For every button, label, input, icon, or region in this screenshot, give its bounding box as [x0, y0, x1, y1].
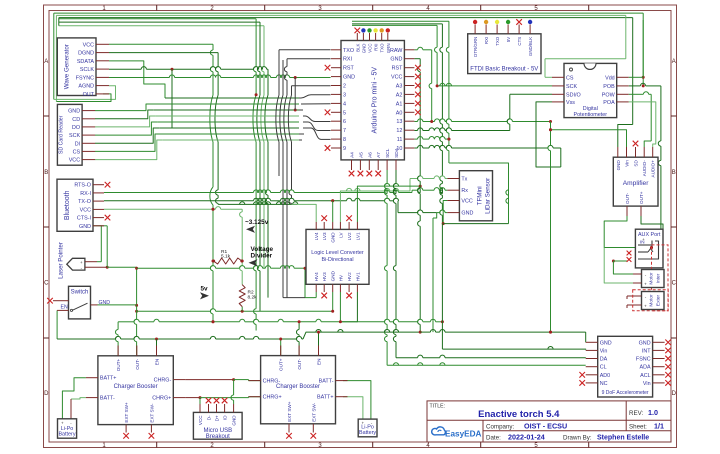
- svg-text:2022-01-24: 2022-01-24: [508, 432, 545, 441]
- svg-text:Exter: Exter: [656, 295, 662, 307]
- svg-text:1/1: 1/1: [654, 422, 664, 431]
- svg-text:D: D: [44, 391, 49, 397]
- svg-text:RTS-O: RTS-O: [74, 183, 91, 189]
- svg-text:Charger Booster: Charger Booster: [114, 384, 158, 390]
- svg-text:Charger Booster: Charger Booster: [276, 384, 320, 390]
- svg-text:~3.125v: ~3.125v: [245, 219, 269, 226]
- svg-text:OUT+: OUT+: [639, 191, 644, 204]
- svg-text:GND: GND: [390, 57, 402, 63]
- svg-text:RXI: RXI: [484, 37, 489, 44]
- svg-text:GND: GND: [331, 232, 336, 243]
- svg-text:TXO: TXO: [495, 36, 500, 46]
- svg-text:SCL: SCL: [385, 148, 391, 158]
- svg-text:FTDI Basic Breakout - 5V: FTDI Basic Breakout - 5V: [470, 67, 538, 73]
- svg-text:BATT+: BATT+: [100, 376, 117, 382]
- svg-text:VCC: VCC: [461, 199, 472, 205]
- svg-text:RXI: RXI: [374, 44, 379, 51]
- svg-text:HV3: HV3: [322, 272, 327, 281]
- svg-text:DO: DO: [72, 125, 80, 131]
- svg-text:GND: GND: [232, 415, 237, 426]
- svg-text:Laser Pointer: Laser Pointer: [57, 242, 64, 279]
- svg-text:DI: DI: [75, 141, 80, 147]
- svg-text:EN: EN: [317, 359, 322, 365]
- svg-text:Breakout: Breakout: [206, 434, 230, 440]
- svg-text:Wave Generator: Wave Generator: [63, 44, 70, 89]
- svg-text:A2: A2: [396, 92, 403, 98]
- svg-text:12: 12: [396, 128, 402, 134]
- svg-text:Enactive torch 5.4: Enactive torch 5.4: [478, 409, 560, 420]
- svg-text:CD: CD: [72, 117, 80, 123]
- svg-text:TX-O: TX-O: [78, 199, 91, 205]
- svg-text:Micro USB: Micro USB: [203, 428, 232, 434]
- svg-text:Switch: Switch: [71, 290, 89, 296]
- svg-text:Drawn By:: Drawn By:: [563, 434, 592, 441]
- svg-text:VCC: VCC: [80, 207, 91, 213]
- svg-text:DA: DA: [600, 357, 608, 363]
- svg-text:TXO: TXO: [343, 48, 354, 54]
- svg-text:Motor: Motor: [649, 272, 655, 285]
- svg-text:8.2k: 8.2k: [248, 294, 258, 300]
- svg-text:RX-I: RX-I: [80, 191, 91, 197]
- svg-text:HV1: HV1: [355, 272, 360, 281]
- svg-text:EXT SW+: EXT SW+: [287, 401, 292, 422]
- svg-text:OUT-: OUT-: [297, 358, 302, 369]
- svg-text:HV: HV: [338, 274, 343, 281]
- svg-text:Vin: Vin: [600, 348, 608, 354]
- svg-text:OUT+: OUT+: [279, 358, 284, 371]
- svg-text:NC: NC: [600, 381, 608, 387]
- svg-text:AD0: AD0: [600, 373, 611, 379]
- svg-text:DTR/GRN: DTR/GRN: [473, 37, 478, 57]
- svg-text:FSYNC: FSYNC: [76, 75, 94, 81]
- svg-text:EN: EN: [155, 359, 160, 365]
- svg-text:GND: GND: [79, 224, 91, 230]
- svg-text:Company:: Company:: [486, 424, 514, 431]
- svg-text:B: B: [44, 170, 48, 176]
- svg-text:D-: D-: [207, 415, 212, 420]
- svg-text:OIST - ECSU: OIST - ECSU: [524, 422, 567, 431]
- svg-text:A0: A0: [396, 110, 403, 116]
- svg-text:BLK: BLK: [355, 43, 360, 51]
- svg-text:DGND: DGND: [78, 51, 94, 57]
- svg-text:5v: 5v: [201, 286, 209, 293]
- svg-text:OUT-: OUT-: [135, 358, 140, 369]
- svg-text:Motor: Motor: [649, 294, 655, 307]
- svg-text:11: 11: [397, 137, 403, 143]
- svg-text:SDA: SDA: [394, 147, 400, 158]
- svg-text:D+: D+: [215, 415, 220, 421]
- svg-text:GRN: GRN: [386, 44, 391, 54]
- svg-text:RXI: RXI: [343, 57, 352, 63]
- svg-text:EXT SW-: EXT SW-: [149, 403, 154, 422]
- svg-text:AUDIO+: AUDIO+: [651, 160, 656, 178]
- svg-text:POB: POB: [603, 84, 615, 90]
- svg-text:GND: GND: [361, 44, 366, 54]
- svg-text:+: +: [644, 282, 647, 287]
- svg-text:GND: GND: [600, 340, 612, 346]
- svg-text:EXT SW+: EXT SW+: [124, 402, 129, 423]
- svg-text:CL: CL: [600, 365, 607, 371]
- svg-text:Potentiometer: Potentiometer: [574, 112, 608, 118]
- svg-text:Divider: Divider: [251, 253, 273, 260]
- svg-text:HV2: HV2: [347, 272, 352, 281]
- svg-text:CS: CS: [73, 149, 81, 155]
- svg-text:FSNC: FSNC: [636, 357, 651, 363]
- svg-text:A5: A5: [358, 152, 364, 158]
- svg-text:LiDar Sensor: LiDar Sensor: [484, 178, 491, 214]
- svg-text:RST: RST: [343, 66, 354, 72]
- svg-text:7: 7: [343, 128, 346, 134]
- svg-text:VCC: VCC: [198, 415, 203, 425]
- svg-text:5V: 5V: [506, 37, 511, 42]
- svg-text:1.0: 1.0: [648, 408, 658, 417]
- svg-text:LV1: LV1: [355, 232, 360, 240]
- svg-text:ADA: ADA: [640, 365, 651, 371]
- svg-text:Bi-Directional: Bi-Directional: [321, 257, 353, 263]
- svg-text:Logic Level Converter: Logic Level Converter: [311, 250, 364, 256]
- svg-text:SD: SD: [634, 160, 639, 167]
- svg-text:D: D: [672, 391, 677, 397]
- svg-text:EN: EN: [61, 305, 68, 311]
- svg-text:Inter: Inter: [656, 273, 662, 283]
- svg-text:13: 13: [396, 119, 402, 125]
- svg-text:ACL: ACL: [640, 373, 651, 379]
- svg-text:A6: A6: [367, 152, 373, 158]
- svg-text:RST: RST: [392, 66, 403, 72]
- svg-text:LV3: LV3: [322, 232, 327, 240]
- svg-text:A3: A3: [396, 84, 403, 90]
- svg-text:A: A: [672, 59, 676, 65]
- svg-text:EXT SW-: EXT SW-: [311, 402, 316, 421]
- svg-text:6: 6: [343, 119, 346, 125]
- svg-text:OUT: OUT: [83, 92, 95, 98]
- svg-text:OUT+: OUT+: [116, 358, 121, 371]
- svg-text:2: 2: [343, 84, 346, 90]
- svg-text:CHRG-: CHRG-: [154, 378, 172, 384]
- svg-text:AGND: AGND: [78, 84, 94, 90]
- svg-text:GND: GND: [343, 75, 355, 81]
- svg-text:CS: CS: [566, 75, 574, 81]
- svg-text:SDI/O: SDI/O: [566, 92, 581, 98]
- svg-text:EasyEDA: EasyEDA: [445, 429, 481, 438]
- svg-text:C: C: [672, 281, 677, 287]
- svg-text:POA: POA: [603, 100, 615, 106]
- svg-text:BATT-: BATT-: [100, 396, 115, 402]
- svg-text:REV:: REV:: [629, 410, 643, 417]
- svg-text:AUDIO-: AUDIO-: [642, 160, 647, 177]
- svg-text:CHRG+: CHRG+: [263, 395, 282, 401]
- svg-text:Stephen Estelle: Stephen Estelle: [597, 434, 649, 441]
- svg-text:Amplifier: Amplifier: [623, 180, 649, 187]
- svg-text:CTS: CTS: [517, 37, 522, 46]
- svg-text:Vss: Vss: [566, 100, 575, 106]
- svg-text:A7: A7: [376, 152, 382, 158]
- svg-text:9: 9: [343, 146, 346, 152]
- svg-text:Sheet:: Sheet:: [629, 424, 647, 431]
- svg-text:INT: INT: [642, 348, 651, 354]
- svg-text:B: B: [672, 170, 676, 176]
- svg-text:Battery: Battery: [359, 430, 376, 436]
- svg-text:LV2: LV2: [347, 232, 352, 240]
- svg-text:Vin: Vin: [625, 160, 630, 167]
- svg-text:VCC: VCC: [368, 44, 373, 53]
- svg-text:GND: GND: [639, 340, 651, 346]
- svg-text:GND: GND: [616, 160, 621, 171]
- svg-text:TFMini: TFMini: [477, 186, 484, 205]
- svg-text:TITLE:: TITLE:: [430, 403, 446, 409]
- svg-text:C: C: [44, 281, 49, 287]
- svg-text:LV: LV: [338, 231, 343, 237]
- svg-text:SDATA: SDATA: [77, 59, 95, 65]
- svg-text:SCK: SCK: [566, 84, 577, 90]
- svg-text:9 DoF Accelerometer: 9 DoF Accelerometer: [602, 390, 649, 396]
- svg-text:POW: POW: [602, 92, 616, 98]
- svg-text:Date:: Date:: [486, 434, 501, 441]
- svg-text:ID: ID: [223, 415, 228, 420]
- svg-text:Tx: Tx: [461, 177, 467, 183]
- svg-text:GND: GND: [99, 300, 111, 306]
- svg-text:3: 3: [343, 92, 346, 98]
- svg-text:TXO: TXO: [380, 43, 385, 53]
- svg-text:RAW: RAW: [390, 48, 403, 54]
- svg-text:Vdd: Vdd: [605, 75, 615, 81]
- svg-text:CHRG+: CHRG+: [152, 396, 171, 402]
- svg-text:GND: GND: [331, 270, 336, 281]
- svg-text:Bluetooth: Bluetooth: [64, 190, 71, 220]
- svg-text:Rx: Rx: [461, 188, 468, 194]
- svg-text:A1: A1: [396, 101, 403, 107]
- svg-text:VCC: VCC: [391, 75, 402, 81]
- svg-text:4: 4: [343, 101, 346, 107]
- svg-text:A: A: [44, 59, 48, 65]
- svg-text:+: +: [644, 304, 647, 309]
- svg-text:VCC: VCC: [69, 158, 80, 164]
- svg-text:CTS-I: CTS-I: [77, 216, 91, 222]
- svg-text:5: 5: [343, 110, 346, 116]
- svg-text:GND/BLK: GND/BLK: [528, 37, 533, 56]
- svg-text:SCLK: SCLK: [80, 67, 94, 73]
- svg-text:OUT-: OUT-: [625, 193, 630, 204]
- svg-text:GND: GND: [461, 211, 473, 217]
- svg-text:CHRG-: CHRG-: [263, 379, 281, 385]
- svg-text:Battery: Battery: [58, 432, 75, 438]
- svg-text:VCC: VCC: [83, 42, 94, 48]
- svg-text:Vin: Vin: [643, 381, 651, 387]
- svg-text:A4: A4: [350, 152, 356, 158]
- svg-text:SCK: SCK: [69, 133, 80, 139]
- svg-text:GND: GND: [68, 109, 80, 115]
- svg-text:BATT+: BATT+: [317, 395, 334, 401]
- svg-text:Arduino Pro mini - 5V: Arduino Pro mini - 5V: [372, 67, 379, 134]
- svg-text:LV4: LV4: [314, 232, 319, 240]
- svg-text:HV4: HV4: [314, 272, 319, 281]
- svg-text:SD Card Reader: SD Card Reader: [58, 115, 64, 154]
- svg-text:8: 8: [343, 137, 346, 143]
- svg-text:BATT-: BATT-: [319, 379, 334, 385]
